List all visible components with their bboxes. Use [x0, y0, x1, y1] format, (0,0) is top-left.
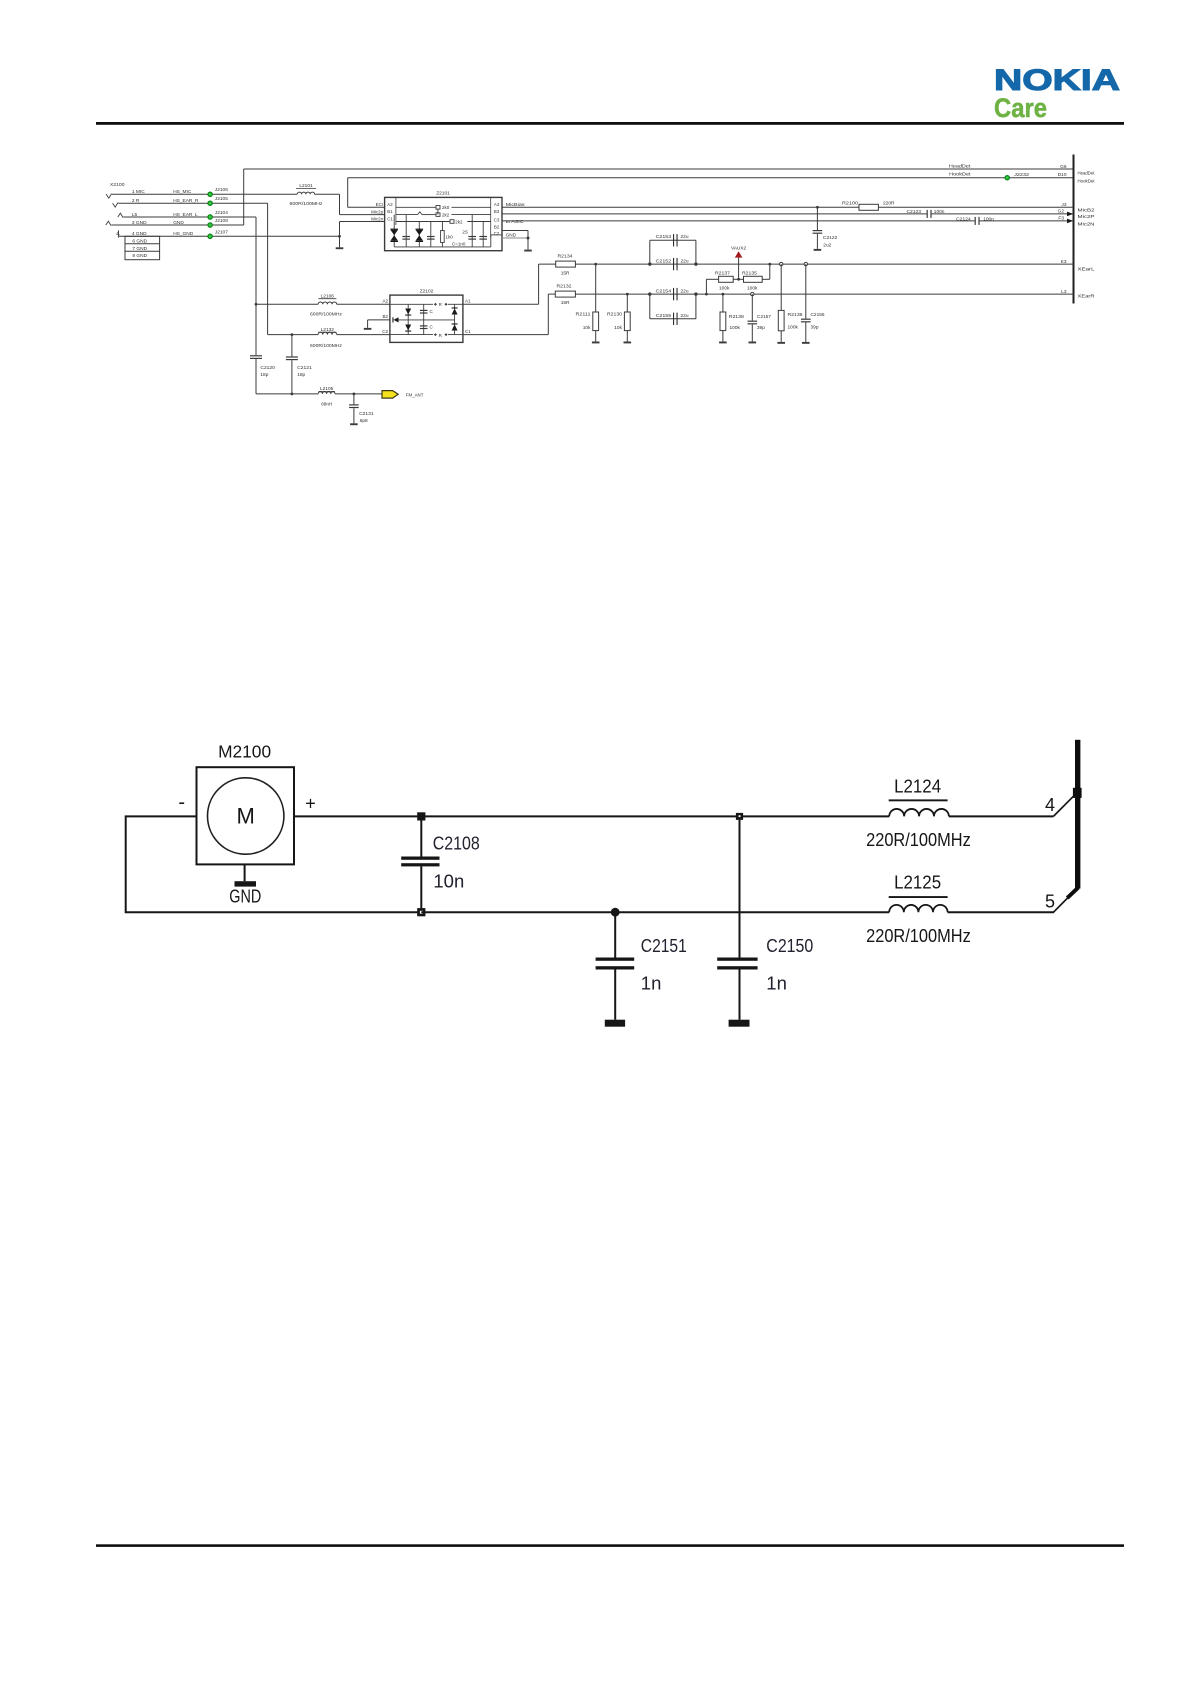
- svg-text:22u: 22u: [681, 289, 689, 295]
- junction C2108 bottom center: [420, 911, 423, 914]
- svg-text:to ASIC: to ASIC: [506, 219, 525, 224]
- capacitor C2131: [349, 404, 359, 405]
- svg-text:J2105: J2105: [215, 196, 228, 202]
- svg-text:Mic2P: Mic2P: [1078, 214, 1095, 220]
- capacitor C inner 3: [468, 236, 476, 237]
- test point J2232: [1005, 175, 1010, 180]
- wire HookDet: [348, 177, 1074, 179]
- capacitor C2151 plate A: [596, 958, 635, 961]
- wire motor plus rail: [294, 815, 889, 817]
- wire C row Z2102: [390, 334, 433, 336]
- svg-text:22u: 22u: [681, 259, 689, 265]
- motor M circle: [208, 778, 284, 854]
- wire: [490, 235, 492, 247]
- svg-text:HS_EAR_L: HS_EAR_L: [173, 212, 198, 218]
- svg-text:100k: 100k: [730, 325, 741, 331]
- ground C2156: [802, 342, 810, 344]
- svg-text:B3: B3: [494, 209, 500, 214]
- svg-text:HookDet: HookDet: [1078, 179, 1096, 185]
- capacitor C2157: [748, 321, 758, 322]
- wire: [210, 193, 297, 195]
- wire C2155 loop left: [649, 294, 651, 319]
- wire 1k0: [441, 222, 443, 247]
- wire: [650, 239, 696, 241]
- svg-text:C2121: C2121: [297, 365, 312, 371]
- svg-text:2S: 2S: [462, 230, 468, 235]
- junction C2131: [353, 393, 356, 396]
- wire HS_EAR_R vertical: [267, 203, 269, 334]
- svg-text:L2105: L2105: [320, 386, 334, 392]
- wire HeadDet: [244, 168, 1074, 170]
- resistor R2135: [744, 276, 763, 282]
- jack contact pin2: [113, 203, 118, 208]
- svg-text:FM_ANT: FM_ANT: [406, 392, 424, 398]
- junction loop2 L: [648, 292, 651, 295]
- resistor R2137: [719, 276, 734, 282]
- svg-text:1k0: 1k0: [446, 235, 454, 240]
- capacitor C2108 plate A: [401, 857, 439, 860]
- svg-text:B2: B2: [382, 314, 388, 319]
- svg-text:C2153: C2153: [656, 234, 672, 240]
- test point J2107: [208, 234, 213, 239]
- svg-text:68nH: 68nH: [321, 402, 332, 407]
- junction loop2 R: [694, 292, 697, 295]
- wire: [491, 234, 502, 236]
- jack contact pin5: [118, 213, 123, 217]
- wire: [595, 331, 597, 342]
- capacitor C2123: [927, 210, 928, 218]
- wire: [125, 250, 160, 252]
- jack contact pin3: [106, 221, 111, 225]
- connector pad pin 4: [1073, 788, 1082, 798]
- svg-text:B1: B1: [387, 209, 393, 214]
- bar: [1075, 740, 1080, 889]
- wire MicBias-MicB2: [502, 206, 859, 208]
- ground HS_GND: [336, 247, 344, 249]
- resistor R2132: [555, 291, 575, 297]
- wire: [805, 322, 807, 342]
- svg-text:2u2: 2u2: [823, 242, 831, 248]
- wire C2 GND out: [502, 237, 528, 239]
- svg-text:4: 4: [1045, 795, 1055, 815]
- svg-text:C2151: C2151: [641, 935, 687, 956]
- ground B2: [364, 328, 372, 330]
- svg-text:XEarL: XEarL: [1078, 267, 1095, 273]
- wire: [319, 390, 336, 392]
- junction GND: [527, 237, 530, 240]
- ground C2151: [605, 1020, 625, 1027]
- inductor L2105: [318, 392, 335, 394]
- junction R2136 top: [780, 262, 783, 265]
- svg-text:MicB2: MicB2: [1078, 207, 1095, 213]
- wire: [780, 331, 782, 342]
- svg-text:A2: A2: [382, 299, 388, 304]
- svg-text:M2100: M2100: [218, 742, 271, 762]
- wire: [255, 359, 257, 394]
- svg-text:VAUX2: VAUX2: [731, 246, 746, 252]
- wire VAUX2: [738, 258, 740, 280]
- svg-text:5: 5: [1045, 892, 1055, 912]
- svg-text:100k: 100k: [719, 285, 730, 291]
- wire: [762, 278, 770, 280]
- svg-text:HS_MIC: HS_MIC: [173, 189, 192, 195]
- wire C2151 bottom lead: [614, 970, 616, 1020]
- resistor 2k2: [436, 213, 440, 217]
- svg-text:J2108: J2108: [215, 218, 228, 224]
- capacitor C2124: [975, 217, 976, 225]
- svg-text:Z2101: Z2101: [436, 191, 450, 197]
- wire: [339, 236, 341, 247]
- svg-text:L2132: L2132: [321, 327, 335, 333]
- resistor R2136: [778, 310, 784, 330]
- svg-text:X2100: X2100: [110, 182, 125, 188]
- svg-text:L2125: L2125: [894, 873, 941, 893]
- wire: [395, 197, 397, 225]
- wire: [751, 324, 753, 341]
- wire: [722, 331, 724, 342]
- wire: [353, 408, 355, 423]
- ground R2111: [592, 342, 600, 344]
- ground C2122: [814, 249, 822, 251]
- junction C2121 bottom: [291, 393, 294, 396]
- wire pin3 GND: [111, 224, 243, 226]
- wire: [816, 234, 818, 249]
- svg-text:220R: 220R: [883, 201, 895, 207]
- wire Mic2n to HS_GND: [339, 222, 341, 237]
- wire: [538, 264, 540, 304]
- wire motor gnd stub: [244, 864, 246, 881]
- wire R2138 top: [722, 294, 724, 312]
- svg-text:C2122: C2122: [823, 235, 838, 241]
- svg-text:600R/100MHz: 600R/100MHz: [290, 201, 324, 206]
- svg-text:R2136: R2136: [788, 312, 803, 318]
- svg-text:2k2: 2k2: [442, 213, 450, 218]
- ground C2157: [749, 342, 757, 344]
- wire R2111 top: [595, 264, 597, 312]
- svg-text:3 GND: 3 GND: [132, 220, 147, 226]
- capacitor Ca: [420, 310, 428, 311]
- wire pin 4 diagonal: [1053, 795, 1074, 816]
- svg-text:B2: B2: [494, 225, 500, 230]
- capacitor C2154: [673, 288, 674, 300]
- svg-text:600R/100MHz: 600R/100MHz: [310, 343, 343, 348]
- diode B2 entry: [394, 317, 399, 322]
- TVS diode pair 2: [416, 230, 424, 236]
- junction loop L: [648, 262, 651, 265]
- wire A1 out: [463, 303, 539, 305]
- wire ECI into Z2101: [348, 206, 385, 208]
- svg-text:HS_GND: HS_GND: [173, 231, 194, 237]
- wire C2156: [805, 264, 807, 319]
- svg-text:HookDet: HookDet: [949, 172, 971, 178]
- svg-text:Mic2p: Mic2p: [371, 209, 384, 214]
- svg-text:-: -: [178, 792, 185, 814]
- svg-text:C2155: C2155: [656, 313, 672, 319]
- wire: [706, 278, 718, 280]
- resistor R marker right (C row): [444, 333, 447, 336]
- wire C2122: [816, 207, 818, 230]
- svg-text:C=1n0: C=1n0: [452, 242, 466, 247]
- capacitor C2121: [286, 356, 298, 357]
- capacitor C2155: [673, 313, 674, 325]
- wire cap col: [423, 304, 425, 334]
- diode 2a: [452, 309, 458, 315]
- svg-text:18p: 18p: [260, 372, 268, 378]
- wire pin1 MIC: [112, 193, 210, 195]
- pin 5 contact stub: [1067, 888, 1078, 898]
- svg-text:6 GND: 6 GND: [132, 238, 147, 244]
- wire cap4: [482, 222, 484, 247]
- wire HS_EAR_L vertical: [255, 217, 257, 304]
- svg-text:C2150: C2150: [766, 935, 813, 956]
- wire bottom rail: [421, 911, 889, 913]
- wire R2130 top: [626, 294, 628, 312]
- svg-text:D10: D10: [1058, 172, 1067, 178]
- svg-text:2k0: 2k0: [442, 205, 450, 210]
- svg-text:HS_EAR_R: HS_EAR_R: [173, 198, 199, 204]
- svg-text:HeadDet: HeadDet: [1078, 170, 1096, 176]
- TVS diode pair 1: [390, 230, 398, 236]
- svg-text:R2138: R2138: [729, 314, 744, 320]
- svg-text:2k2: 2k2: [455, 219, 463, 224]
- resistor R marker left (C row): [434, 333, 437, 336]
- wire: [452, 206, 491, 208]
- ground Z2101: [524, 250, 532, 252]
- svg-text:C2156: C2156: [811, 312, 825, 318]
- wire C2150 lead: [739, 820, 741, 958]
- resistor R2130: [624, 312, 630, 331]
- capacitor C2156: [801, 319, 811, 320]
- svg-text:MicBias: MicBias: [506, 202, 526, 207]
- capacitor C2151 plate B: [596, 966, 635, 969]
- svg-text:C3: C3: [494, 218, 500, 223]
- svg-text:C2154: C2154: [656, 289, 672, 295]
- inductor L2124: [889, 809, 949, 816]
- wire L2124 to pin 4: [949, 815, 1054, 817]
- resistor R marker right (A row): [444, 303, 447, 306]
- svg-text:G6: G6: [1060, 164, 1067, 170]
- wire B2 stub: [368, 319, 390, 321]
- svg-text:A1: A1: [465, 299, 471, 304]
- wire: [296, 188, 316, 190]
- wire: [527, 238, 529, 250]
- capacitor C2153: [673, 234, 674, 246]
- junction C2151: [611, 908, 620, 917]
- svg-text:R2137: R2137: [715, 270, 730, 276]
- svg-text:Z2102: Z2102: [420, 288, 434, 294]
- svg-text:C2124: C2124: [956, 216, 971, 222]
- wire cap2: [430, 222, 432, 247]
- footer rule: [96, 1544, 1124, 1547]
- wire R2135 to XEarL: [769, 264, 771, 279]
- wire diode col 2: [454, 304, 456, 334]
- bar: [1073, 155, 1075, 304]
- wire HookDet vertical to ECI/A2: [347, 178, 349, 208]
- wire: [490, 197, 492, 238]
- wire C2157 top: [751, 294, 753, 321]
- capacitor C2152: [673, 258, 674, 270]
- wire C2131: [353, 394, 355, 404]
- wire Mic2p into Z2101: [340, 214, 385, 216]
- svg-text:R2111: R2111: [576, 312, 591, 318]
- wire XEarL: [575, 263, 1073, 265]
- wire C2153 loop right: [695, 240, 697, 264]
- wire R2137 left: [705, 279, 707, 294]
- svg-text:10n: 10n: [433, 871, 464, 892]
- junction R2135 top: [768, 263, 771, 266]
- svg-text:100k: 100k: [788, 324, 799, 330]
- svg-text:C1: C1: [465, 329, 471, 334]
- wire pin2 R: [118, 202, 267, 204]
- ground R2138: [719, 342, 727, 344]
- resistor 2k2 C row: [450, 220, 454, 224]
- svg-text:C2152: C2152: [656, 259, 672, 265]
- resistor R marker left (A row): [434, 303, 437, 306]
- resistor R2138: [720, 312, 726, 331]
- diode 1a: [405, 309, 411, 315]
- svg-text:C2120: C2120: [260, 365, 275, 371]
- svg-text:2 R: 2 R: [132, 198, 140, 204]
- svg-text:10k: 10k: [583, 325, 591, 331]
- arrow Mic2N: [1067, 219, 1073, 224]
- ground R2136: [777, 342, 785, 344]
- header rule: [96, 122, 1124, 125]
- wire L2101 to Mic2p: [315, 193, 340, 195]
- svg-text:15R: 15R: [561, 300, 570, 306]
- wire inner bottom rail: [394, 246, 491, 248]
- wire R2100 to bus J3: [878, 206, 1073, 208]
- svg-text:1 MIC: 1 MIC: [132, 189, 145, 195]
- wire XEarR: [575, 293, 1073, 295]
- svg-text:1n: 1n: [766, 972, 787, 993]
- junction C2108 top: [417, 812, 425, 820]
- wire TVS2: [418, 222, 420, 247]
- resistor 1k0: [441, 231, 445, 243]
- wire: [733, 278, 743, 280]
- junction C2121 top: [291, 333, 294, 336]
- wire: [932, 213, 1069, 215]
- wire C2151 top lead: [614, 912, 616, 957]
- capacitor C inner 4: [479, 236, 487, 237]
- wire C2153 loop left: [649, 240, 651, 264]
- wire: [650, 318, 696, 320]
- svg-text:R2130: R2130: [607, 312, 622, 318]
- EMI filter Z2101: [385, 197, 502, 250]
- svg-text:R2134: R2134: [558, 254, 573, 260]
- wire HeadDet vertical to J2108 row: [243, 169, 245, 225]
- ground C2131: [350, 423, 358, 425]
- wire Mic2P: [502, 213, 927, 215]
- svg-text:C2157: C2157: [757, 314, 771, 320]
- wire L2125 to pin 5: [948, 911, 1054, 913]
- capacitor C2150 plate A: [717, 958, 757, 961]
- junction C2120: [255, 303, 258, 306]
- svg-text:L2124: L2124: [894, 776, 941, 796]
- wire C1 out: [463, 334, 548, 336]
- inductor L2125: [889, 905, 947, 912]
- svg-text:10k: 10k: [614, 325, 622, 331]
- wire C2108 bottom lead: [420, 866, 422, 912]
- junction R2138: [722, 293, 725, 296]
- capacitor C2108 plate B: [401, 863, 439, 866]
- wire: [337, 334, 390, 336]
- wire A row Z2102: [390, 303, 433, 305]
- svg-text:J2104: J2104: [215, 210, 228, 216]
- wire pin5 L: [123, 216, 256, 218]
- wire: [467, 221, 490, 223]
- wire HS_EAR_R to L2132: [268, 334, 319, 336]
- junction C2122: [816, 206, 819, 209]
- resistor 2k0: [436, 206, 440, 210]
- junction VAUX2: [737, 278, 740, 281]
- svg-text:C2123: C2123: [907, 209, 922, 215]
- svg-text:22u: 22u: [681, 234, 689, 240]
- wire 2k0 to B row: [437, 209, 439, 215]
- ground R2130: [624, 342, 632, 344]
- svg-text:R2135: R2135: [742, 270, 757, 276]
- wire C2120 top: [255, 304, 257, 355]
- junction loop R: [694, 262, 697, 265]
- junction C2150 top: [736, 813, 743, 820]
- wire A row: [396, 206, 436, 208]
- wire: [739, 970, 741, 1020]
- wire: [539, 263, 556, 265]
- svg-text:100n: 100n: [983, 216, 994, 222]
- svg-text:A2: A2: [387, 202, 393, 207]
- svg-text:22u: 22u: [681, 313, 689, 319]
- power VAUX2: [735, 251, 743, 257]
- wire pin4 HS_GND: [119, 235, 340, 237]
- capacitor C2122: [813, 230, 823, 231]
- arrow Mic2P: [1067, 212, 1073, 217]
- box: [125, 236, 160, 259]
- svg-text:C2131: C2131: [359, 411, 374, 417]
- capacitor C2120: [250, 355, 262, 356]
- wire diode col 1: [407, 304, 409, 334]
- junction C2156 top: [804, 262, 807, 265]
- wire C2155 loop right: [695, 294, 697, 319]
- bead mark: [418, 212, 423, 215]
- wire motor minus to bottom rail: [126, 816, 422, 912]
- inductor L2132: [318, 332, 337, 334]
- svg-text:L2101: L2101: [299, 183, 313, 189]
- wire cap1: [405, 215, 407, 247]
- resistor R2100: [859, 204, 878, 210]
- svg-text:220R/100MHz: 220R/100MHz: [866, 830, 971, 850]
- label L2125 underline: [889, 896, 948, 898]
- wire: [291, 360, 293, 394]
- test point J2104: [208, 215, 213, 220]
- wire cap3: [471, 215, 473, 247]
- vibra motor M2100 box: [197, 767, 295, 864]
- svg-text:GND: GND: [229, 887, 261, 907]
- wire Mic2n into Z2101: [340, 221, 385, 223]
- wire: [980, 220, 1069, 222]
- wire pin 5 diagonal: [1053, 897, 1068, 912]
- svg-text:39p: 39p: [757, 325, 765, 331]
- resistor R2111: [593, 312, 599, 331]
- svg-text:A3: A3: [494, 202, 500, 207]
- wire: [448, 334, 463, 336]
- svg-text:Care: Care: [994, 93, 1047, 123]
- svg-text:GND: GND: [173, 220, 184, 226]
- junction R2130: [626, 293, 629, 296]
- test point J2108: [208, 223, 213, 228]
- svg-text:220R/100MHz: 220R/100MHz: [866, 926, 971, 946]
- svg-text:Mic2n: Mic2n: [371, 217, 384, 222]
- junction C2150 top center: [739, 815, 741, 817]
- wire Mic2N: [502, 220, 975, 222]
